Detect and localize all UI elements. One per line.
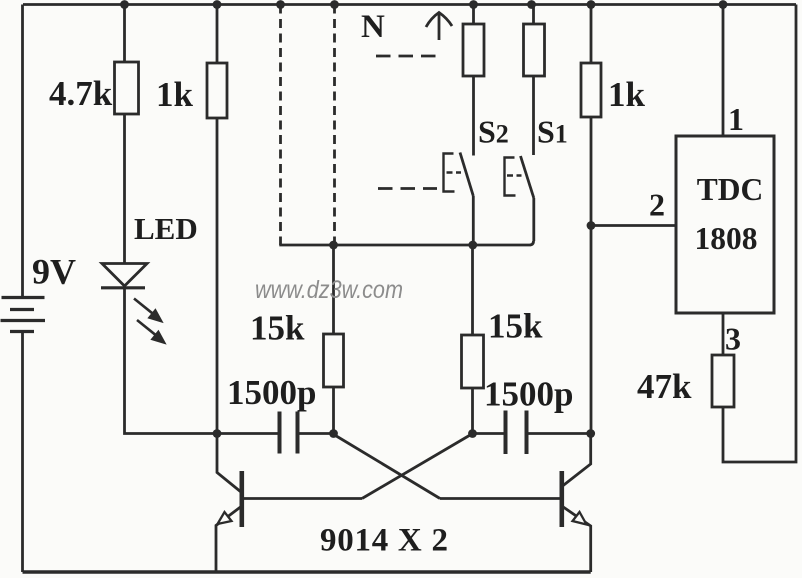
wire top supply rail bbox=[23, 3, 796, 6]
resistor 4.7k bbox=[115, 62, 139, 114]
dashed neutral mark lower bbox=[378, 187, 437, 190]
switch S2 blade bbox=[460, 153, 473, 197]
junction node K4 bbox=[586, 429, 595, 438]
transistor Q1 emitter arrowhead bbox=[218, 512, 232, 524]
svg-text:4.7k: 4.7k bbox=[49, 74, 113, 113]
svg-text:47k: 47k bbox=[637, 367, 692, 406]
transistor Q2 base bar bbox=[559, 471, 564, 527]
resistor S2 series bbox=[463, 24, 484, 76]
svg-text:2: 2 bbox=[649, 187, 665, 223]
svg-text:15k: 15k bbox=[488, 307, 543, 346]
wire 1k right bottom through pin2 node to node K4 bbox=[590, 117, 593, 434]
wire 15k left bottom to node K2 bbox=[332, 387, 335, 434]
wire left rail upper (battery +) bbox=[21, 5, 24, 297]
battery B1 9V bbox=[1, 298, 46, 332]
wire cross-couple Q1 base to node K3 bbox=[362, 435, 471, 499]
capacitor C1 1500p bbox=[280, 412, 298, 454]
wire TDC pin2 bbox=[591, 224, 676, 227]
resistor R5 1k right bbox=[581, 63, 601, 117]
junction node switch rail left bbox=[329, 241, 338, 250]
wire 4.7k top bbox=[123, 5, 126, 63]
dashed neutral mark upper bbox=[376, 55, 436, 58]
capacitor C2 1500p bbox=[506, 411, 527, 455]
wire TDC pin1 bbox=[722, 5, 725, 137]
transistor Q2 emitter bbox=[562, 506, 591, 572]
wire 15k right top bbox=[471, 245, 474, 335]
svg-text:1808: 1808 bbox=[695, 221, 758, 256]
wire S2 resistor top bbox=[472, 5, 475, 25]
wire 4.7k to LED bbox=[123, 114, 126, 263]
IC U1 TDC1808 bbox=[676, 136, 774, 313]
svg-text:S2: S2 bbox=[478, 114, 509, 150]
junction node TDC pin2 bbox=[587, 221, 596, 230]
wire 47k bottom to right rail bbox=[723, 5, 796, 463]
wire node K3 to capacitor C2 bbox=[473, 432, 506, 435]
svg-text:TDC: TDC bbox=[697, 172, 764, 207]
wire TDC pin3 bbox=[722, 313, 725, 355]
wire dashed lamp line right bbox=[333, 5, 336, 246]
wire dashed lamp line left bbox=[279, 5, 282, 246]
transistor Q1 emitter bbox=[216, 506, 242, 572]
svg-text:1k: 1k bbox=[156, 75, 194, 114]
wire S1 resistor to blade bbox=[532, 76, 535, 155]
transistor Q1 collector wire bbox=[217, 434, 241, 493]
transistor Q1 base wire bbox=[243, 497, 362, 500]
junction node K1 bbox=[213, 429, 222, 438]
wire S2 blade to common rail bbox=[472, 196, 475, 245]
junction node K2 bbox=[329, 429, 338, 438]
svg-text:www.dz3w.com: www.dz3w.com bbox=[255, 276, 403, 304]
svg-text:15k: 15k bbox=[250, 309, 305, 348]
wire bottom ground rail bbox=[23, 570, 591, 574]
wire switch common rail bbox=[279, 244, 529, 247]
wire S1 blade down bbox=[532, 198, 535, 241]
svg-text:1k: 1k bbox=[608, 75, 646, 114]
wire 15k left top bbox=[332, 245, 335, 334]
svg-text:N: N bbox=[361, 9, 385, 45]
svg-text:1: 1 bbox=[728, 101, 744, 137]
transistor Q2 base wire bbox=[440, 497, 561, 500]
svg-text:S1: S1 bbox=[537, 114, 568, 150]
resistor R4 15k right bbox=[462, 335, 484, 388]
wire cross-couple Q2 base to node K2 bbox=[334, 435, 440, 499]
wire C2 right to node K4 bbox=[527, 432, 591, 435]
svg-text:LED: LED bbox=[134, 211, 198, 246]
wire 1k left top bbox=[216, 5, 219, 64]
svg-text:9014 X 2: 9014 X 2 bbox=[320, 523, 448, 559]
resistor R2 1k left bbox=[207, 63, 227, 118]
resistor R3 15k left bbox=[324, 334, 344, 387]
wire C1 right to node K2 bbox=[298, 432, 334, 435]
svg-text:9V: 9V bbox=[32, 252, 76, 292]
wire S2 resistor to blade bbox=[472, 76, 475, 156]
wire S1 blade bottom elbow bbox=[530, 241, 534, 245]
LED light arrows bbox=[134, 299, 164, 343]
wire 15k right bottom to node K3 bbox=[471, 388, 474, 434]
switch S1 blade bbox=[521, 156, 534, 198]
wire left rail lower (battery -) bbox=[21, 333, 24, 572]
wire S1 resistor top bbox=[532, 5, 535, 25]
svg-text:1500p: 1500p bbox=[484, 375, 573, 414]
LED D1 bbox=[101, 264, 147, 288]
switch S2 actuator bracket bbox=[444, 154, 462, 192]
transistor Q2 emitter arrowhead bbox=[573, 512, 587, 525]
resistor R6 47k bbox=[712, 355, 734, 407]
transistor Q1 base bar bbox=[240, 471, 245, 527]
svg-text:3: 3 bbox=[725, 321, 741, 357]
wire 1k right top bbox=[590, 5, 593, 64]
switch S1 actuator bracket bbox=[505, 158, 522, 196]
wire node K1 to capacitor C1 bbox=[217, 432, 280, 435]
resistor S1 series bbox=[524, 24, 545, 76]
wire LED cathode down and right to node K1 bbox=[125, 288, 218, 434]
junction node switch rail S2 bbox=[468, 241, 477, 250]
svg-text:1500p: 1500p bbox=[227, 373, 316, 412]
arrow up (live line) bbox=[426, 13, 452, 41]
junction node K3 bbox=[468, 429, 477, 438]
transistor Q2 collector wire bbox=[563, 434, 591, 487]
wire 1k left bottom to node K1 bbox=[216, 118, 219, 434]
junction node dots top rail bbox=[120, 0, 129, 9]
